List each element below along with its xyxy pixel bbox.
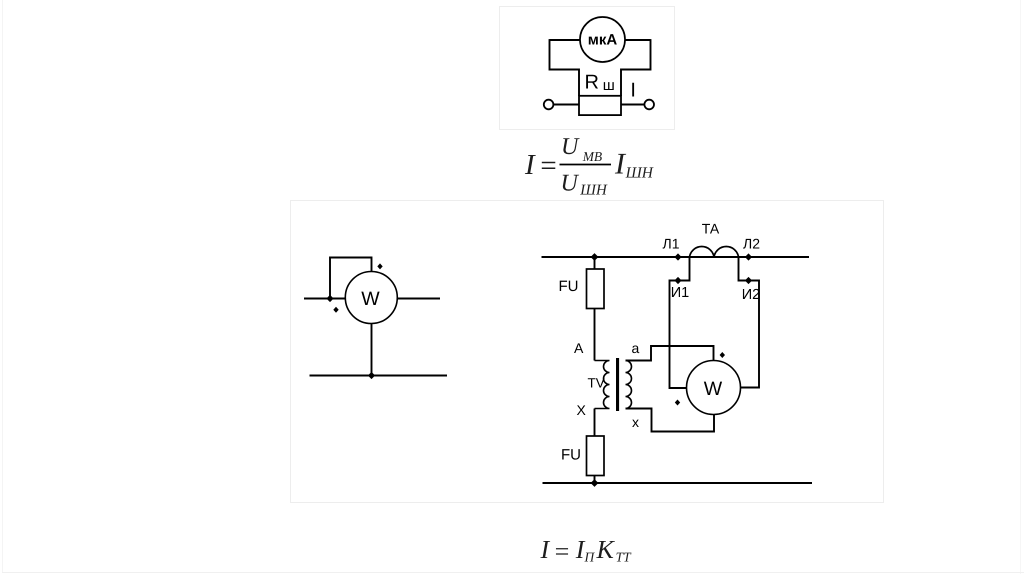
wire: meter right lead [625,39,651,41]
transformer core [616,358,619,411]
svg-text:I: I [540,535,551,564]
wire: left lead [304,298,345,300]
fraction bar [560,164,612,166]
formula I = Umv/Ushn * Ishn [524,134,654,199]
svg-text:U: U [561,171,580,197]
transformer TV secondary winding [626,361,632,409]
middle image frame (wattmeter circuits box) [290,200,884,503]
wire: bottom rail [310,375,448,377]
slide left edge line [2,0,3,572]
svg-text:W: W [361,288,380,310]
svg-text:A: A [574,340,584,356]
svg-text:П: П [584,550,596,565]
svg-text:a: a [632,340,640,356]
current transformer TA [690,247,739,257]
node И1 [674,277,681,284]
transformer TV primary winding [595,361,610,409]
terminal left [544,100,554,110]
wire: fuse leads [594,257,596,269]
node: junction on left lead [326,295,333,302]
wire: left drop to shunt arm [550,39,580,96]
svg-text:Л1: Л1 [663,236,680,252]
svg-text:=: = [553,537,571,566]
slide right edge line [1020,0,1021,574]
polarity mark left [333,307,338,313]
svg-text:Л2: Л2 [743,236,760,252]
wire: top line (primary bus) [542,256,810,258]
svg-text:ШН: ШН [579,183,608,199]
svg-text:FU: FU [561,447,581,464]
svg-text:X: X [577,402,587,418]
slide bottom edge line [2,572,1024,573]
wire: meter left lead [550,39,581,41]
wire: secondary x to wattmeter bottom [626,409,715,432]
svg-text:U: U [561,134,580,160]
svg-text:K: K [596,535,616,564]
svg-text:=: = [539,150,559,182]
svg-text:I: I [524,149,536,181]
svg-text:мкА: мкА [588,32,618,49]
wire: bottom stem [371,324,373,376]
formula I = Ip * Ktt [540,535,633,566]
microammeter PA (мкА) [580,17,625,62]
svg-text:x: x [632,414,639,430]
svg-text:R: R [585,71,599,93]
polarity mark top [377,263,382,269]
wire: voltage loop [330,258,372,299]
node И2 [745,277,752,284]
resistor Rш (shunt) [579,96,621,115]
svg-text:ТТ: ТТ [616,550,633,565]
fuse FU1 [587,269,605,309]
wire: right drop to shunt arm [621,39,651,96]
svg-text:ш: ш [603,77,615,94]
polarity mark bottom-left [675,400,680,406]
svg-text:TV: TV [588,376,605,391]
wire: left terminal to shunt [553,104,579,106]
node Л2 [745,253,752,260]
wire: primary bottom to fuse FU2 [594,409,596,437]
node Л1 [674,253,681,260]
wire: И1 drop [670,257,690,388]
svg-text:FU: FU [559,278,579,295]
wattmeter PW1 [345,272,397,324]
fuse FU2 [587,436,605,476]
node: junction bottom rail [591,479,599,487]
wire: bottom rail [543,482,813,484]
wire: fuse FU2 to bottom rail [594,476,596,484]
wire: secondary a to wattmeter top [626,346,714,361]
svg-text:W: W [704,378,723,400]
terminal right [644,100,654,110]
node: junction at fuse tap [591,253,599,261]
wire: right lead [397,298,440,300]
wire: И2 drop [739,257,760,388]
wattmeter PW2 [687,361,741,415]
svg-text:И1: И1 [671,285,690,301]
svg-text:МВ: МВ [582,149,603,164]
svg-text:И2: И2 [742,287,761,303]
svg-text:I: I [630,80,636,102]
polarity mark top [720,352,725,358]
wire: shunt to right terminal [621,104,644,106]
node: junction on bottom wire [368,372,375,379]
svg-text:ШН: ШН [625,164,654,181]
svg-text:ТА: ТА [702,221,720,237]
top image frame (shunt circuit box) [499,6,675,130]
